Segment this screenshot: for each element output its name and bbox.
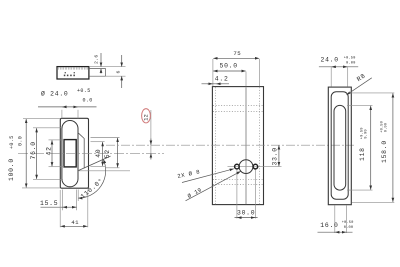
arc ext vertical	[77, 190, 79, 202]
svg-text:0.00: 0.00	[344, 226, 353, 230]
centerline left view	[18, 152, 164, 154]
svg-text:52: 52	[104, 149, 111, 158]
dim 42	[46, 140, 65, 167]
holes axis line	[228, 166, 282, 168]
svg-text:40: 40	[95, 149, 102, 158]
dim 16.0	[318, 205, 354, 233]
section plate outline	[57, 67, 89, 79]
dim 33.0	[271, 145, 279, 166]
dim 50.0	[213, 63, 246, 87]
hidden row top2	[213, 111, 263, 113]
hidden row bottom1	[213, 178, 263, 180]
svg-text:0.0: 0.0	[83, 98, 93, 104]
svg-text:118: 118	[359, 147, 366, 161]
svg-text:Ø 24.0: Ø 24.0	[41, 90, 69, 98]
angle arc 110	[78, 159, 105, 198]
balloon 12	[142, 109, 151, 160]
hidden line left	[214, 87, 216, 204]
bolt hole rect	[64, 140, 76, 167]
hole ext vertical right	[254, 169, 256, 218]
centerline mid and right views	[106, 144, 354, 146]
slot stadium	[62, 121, 78, 187]
svg-text:0.00: 0.00	[346, 62, 355, 66]
svg-text:41: 41	[71, 219, 79, 226]
hidden row bottom2	[213, 183, 263, 185]
feature line 50	[245, 87, 247, 204]
section stamp marks	[64, 72, 75, 76]
dim 24.0 right	[319, 57, 358, 87]
svg-text:2.6: 2.6	[94, 54, 100, 64]
svg-text:0.0: 0.0	[18, 136, 24, 146]
leader R8	[347, 72, 372, 95]
dim dia 24.0	[38, 88, 97, 119]
dim 118	[347, 105, 373, 190]
svg-text:76.0: 76.0	[30, 141, 37, 159]
svg-text:+0.5: +0.5	[9, 135, 15, 149]
dim 100.0	[8, 119, 60, 188]
fold upper diagonal	[78, 133, 84, 169]
svg-text:75: 75	[233, 50, 241, 57]
svg-text:100.0: 100.0	[8, 158, 15, 181]
svg-text:6: 6	[116, 70, 122, 73]
svg-text:4.2: 4.2	[215, 75, 229, 82]
right slot stadium	[334, 105, 346, 190]
right outline	[328, 87, 351, 205]
svg-text:0.00: 0.00	[364, 129, 368, 138]
svg-text:33.0: 33.0	[271, 147, 278, 165]
svg-text:158.0: 158.0	[381, 140, 388, 163]
dim 75	[213, 50, 260, 86]
angle vertex horizontal	[78, 170, 130, 172]
big hole d19	[239, 160, 253, 174]
dim 30.0	[235, 210, 258, 218]
svg-text:16.0: 16.0	[320, 222, 338, 229]
right mid rounded rect	[331, 92, 348, 199]
svg-text:12: 12	[144, 114, 150, 121]
svg-text:50.0: 50.0	[220, 63, 238, 70]
hole ext vertical left	[236, 169, 238, 218]
dim 40	[90, 142, 105, 167]
mid outline	[212, 87, 263, 205]
section ext line top	[89, 66, 126, 68]
section ext line bottom	[106, 75, 126, 77]
dim 6	[116, 55, 122, 88]
dim 52	[91, 138, 120, 168]
dim 4.2	[202, 75, 230, 83]
small hole right	[253, 164, 258, 169]
fold lower diagonal	[78, 156, 110, 171]
svg-text:+0.50: +0.50	[342, 221, 354, 225]
section hatch ticks	[59, 67, 88, 69]
dim 2.6	[94, 53, 102, 74]
svg-text:+0.50: +0.50	[344, 57, 356, 61]
svg-text:+0.5: +0.5	[77, 88, 91, 94]
plate outline	[60, 118, 88, 188]
hidden line right	[258, 87, 260, 204]
dim 76.0	[30, 128, 63, 180]
leader dia19	[186, 171, 241, 201]
svg-text:0.00: 0.00	[385, 123, 389, 132]
leader 2x dia8	[177, 168, 234, 182]
svg-text:15.5: 15.5	[40, 200, 58, 207]
svg-text:24.0: 24.0	[321, 57, 339, 64]
svg-text:30.0: 30.0	[237, 210, 255, 217]
hidden row top1	[213, 105, 263, 107]
section tongue	[89, 69, 106, 77]
dim 41	[60, 190, 88, 227]
svg-text:42: 42	[46, 146, 53, 155]
small hole left	[235, 164, 240, 169]
dim 158.0	[349, 93, 394, 202]
dim 15.5	[40, 190, 77, 211]
